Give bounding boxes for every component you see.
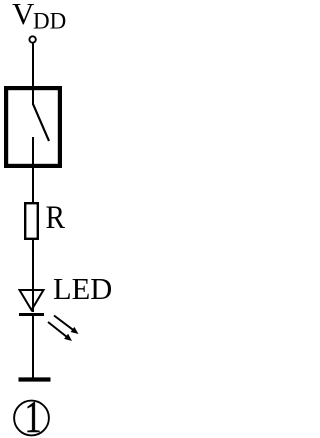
- LED light arrow 2: [48, 322, 72, 341]
- svg-text:1: 1: [24, 391, 41, 438]
- svg-text:V: V: [12, 0, 35, 31]
- switch S blade (open): [33, 104, 49, 141]
- wire switch box to resistor: [32, 166, 34, 203]
- switch box (enclosure): [6, 88, 60, 166]
- switch S bottom stub: [32, 137, 34, 168]
- LED label: [53, 272, 112, 306]
- svg-text:LED: LED: [53, 272, 112, 306]
- wire resistor to LED: [32, 239, 34, 312]
- node label circle 1: [14, 391, 49, 438]
- resistor label R: [46, 199, 66, 236]
- net label VDD: [12, 0, 66, 34]
- wire LED to ground: [32, 316, 34, 380]
- LED light arrow 1: [54, 316, 79, 335]
- wire VDD terminal to switch box: [32, 43, 34, 88]
- switch S top stub: [32, 86, 34, 105]
- resistor R body: [25, 203, 38, 239]
- LED anode triangle: [20, 290, 44, 310]
- terminal (VDD supply): [29, 36, 35, 42]
- ground bar: [19, 377, 51, 381]
- svg-text:R: R: [46, 199, 66, 236]
- LED cathode bar: [19, 313, 44, 316]
- svg-text:DD: DD: [33, 9, 66, 34]
